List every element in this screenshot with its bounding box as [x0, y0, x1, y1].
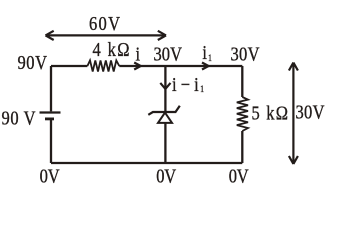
svg-text:0V: 0V — [156, 165, 177, 187]
svg-text:0V: 0V — [229, 165, 250, 187]
svg-text:5 kΩ: 5 kΩ — [252, 102, 289, 124]
svg-text:30V: 30V — [296, 101, 326, 123]
svg-text:i: i — [136, 43, 141, 65]
svg-text:60V: 60V — [89, 13, 121, 35]
svg-text:90 V: 90 V — [2, 107, 37, 129]
svg-text:30V: 30V — [231, 43, 261, 65]
svg-text:30V: 30V — [154, 43, 183, 65]
svg-text:4 kΩ: 4 kΩ — [93, 39, 130, 61]
svg-text:90V: 90V — [18, 52, 48, 74]
svg-text:0V: 0V — [40, 165, 61, 187]
